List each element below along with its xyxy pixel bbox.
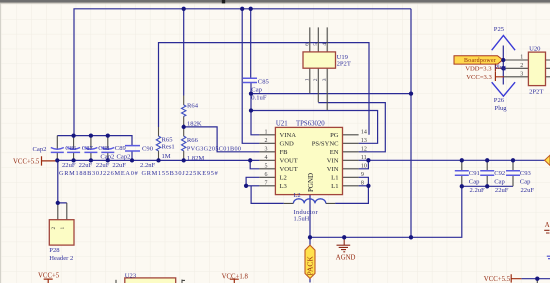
inductor labels — [294, 192, 319, 222]
text R65 — [162, 136, 175, 160]
capacitor C86 — [51, 148, 64, 153]
svg-text:Boardpower: Boardpower — [464, 58, 496, 64]
svg-text:6: 6 — [265, 172, 268, 178]
U21 pin stubs right — [343, 135, 359, 186]
svg-text:U21: U21 — [276, 120, 288, 127]
svg-text:L1: L1 — [331, 175, 338, 182]
svg-text:7: 7 — [265, 181, 268, 187]
svg-text:22uF: 22uF — [521, 187, 535, 194]
svg-text:VOUT: VOUT — [280, 166, 298, 173]
svg-text:Cap: Cap — [469, 178, 480, 185]
svg-text:U23: U23 — [125, 272, 137, 279]
P25 P26 labels — [494, 26, 507, 112]
svg-text:C90: C90 — [142, 145, 154, 152]
svg-text:1: 1 — [265, 130, 268, 136]
svg-text:C93: C93 — [520, 170, 532, 177]
U21 pin stubs left — [259, 135, 275, 186]
power texts — [13, 159, 511, 283]
svg-text:L2: L2 — [280, 175, 287, 182]
svg-text:PVG3G205C01B00: PVG3G205C01B00 — [187, 146, 241, 153]
svg-text:Res1: Res1 — [162, 143, 175, 150]
svg-text:L3: L3 — [280, 183, 288, 190]
U20 pin numbers — [520, 55, 523, 78]
wire U19 pin2 to EN — [318, 103, 385, 152]
wire caps bottom rail — [462, 185, 513, 187]
svg-text:Cap: Cap — [251, 86, 262, 93]
svg-text:P28: P28 — [49, 247, 60, 254]
text R66 — [187, 137, 241, 162]
IC U20 body — [528, 52, 545, 86]
svg-text:1.5uH: 1.5uH — [294, 216, 310, 223]
wire PG net y42.6 — [159, 43, 370, 135]
svg-text:Cap2: Cap2 — [100, 153, 114, 160]
svg-text:C88: C88 — [98, 145, 110, 152]
power port PACK pennant — [305, 245, 315, 278]
capacitor C85 — [243, 78, 257, 82]
U19 pin numbers rotated — [305, 43, 328, 82]
svg-text:C85: C85 — [258, 78, 270, 85]
svg-text:Cap2: Cap2 — [117, 153, 131, 160]
text R64 — [187, 102, 202, 127]
wire VINA net y93.6 — [251, 93, 411, 95]
svg-text:9: 9 — [361, 172, 364, 178]
wire VIN pin11 to C caps and arrow — [359, 159, 546, 161]
clipped AGND right edge — [544, 230, 549, 233]
capacitor C93 — [506, 171, 520, 176]
wire FB net to pin3 — [184, 127, 260, 152]
svg-text:1.82M: 1.82M — [187, 155, 205, 162]
left window edge — [0, 4, 1, 283]
svg-text:14: 14 — [361, 130, 367, 136]
svg-text:1M: 1M — [162, 153, 171, 160]
U21 pin numbers — [265, 130, 367, 187]
svg-text:2: 2 — [313, 78, 319, 81]
svg-text:10: 10 — [361, 164, 367, 170]
svg-text:VCC+5.5: VCC+5.5 — [13, 159, 40, 166]
wire C85 top lead — [250, 9, 252, 79]
svg-text:3: 3 — [265, 147, 268, 153]
svg-text:VCC=3.3: VCC=3.3 — [466, 74, 492, 81]
svg-text:PACK: PACK — [306, 256, 315, 276]
power port VCC+5.5 left — [42, 156, 58, 165]
U19 labels — [337, 54, 351, 68]
wire pin4 to pin5 — [250, 160, 259, 168]
svg-text:U20: U20 — [529, 45, 541, 52]
svg-text:182K: 182K — [187, 121, 202, 128]
IC U23 body — [125, 278, 176, 283]
svg-text:2.2nF: 2.2nF — [140, 162, 156, 169]
svg-text:22uF: 22uF — [495, 187, 509, 194]
svg-text:AGND: AGND — [336, 254, 356, 261]
svg-text:2.2uF: 2.2uF — [470, 187, 486, 194]
bottom right stub — [536, 279, 538, 283]
svg-text:VIN: VIN — [327, 158, 339, 165]
svg-text:GRM188B30J226MEA0#: GRM188B30J226MEA0# — [59, 170, 139, 177]
svg-text:2P2T: 2P2T — [529, 88, 543, 95]
port P26 arrow — [492, 82, 515, 96]
power port VCC+5.5 bottom right — [511, 274, 521, 282]
text labels cap bank — [33, 145, 219, 177]
P28 labels — [49, 247, 73, 262]
svg-text:A: A — [545, 222, 550, 229]
capacitor C90 — [125, 146, 140, 151]
U20 right side pin stubs — [546, 60, 550, 77]
U23 left stub — [115, 280, 117, 283]
power port VCC+5 bar — [44, 279, 53, 283]
svg-text:C91: C91 — [469, 170, 480, 177]
svg-text:1: 1 — [305, 78, 311, 81]
top window edge bar — [0, 0, 550, 3]
svg-text:2: 2 — [520, 63, 523, 69]
svg-text:PS/SYNC: PS/SYNC — [312, 141, 339, 148]
wire to P28 — [58, 160, 67, 203]
P28 pin numbers rotated — [51, 227, 66, 230]
svg-text:C89: C89 — [115, 145, 127, 152]
text C85 — [251, 78, 269, 101]
svg-text:C92: C92 — [494, 170, 505, 177]
wire pin7 stub link — [246, 185, 259, 187]
wire R64 bottom node — [183, 124, 185, 128]
wire pin8 stub link — [359, 185, 369, 187]
text U21 title — [276, 120, 325, 127]
op IC U21 body — [275, 127, 342, 194]
svg-text:L1: L1 — [331, 183, 338, 190]
resistor R65 — [156, 127, 160, 160]
power bar VDD=3.3 — [495, 64, 503, 72]
svg-text:VCC+1.8: VCC+1.8 — [222, 273, 249, 280]
svg-text:22uF: 22uF — [112, 162, 126, 169]
IC U19 body — [303, 52, 336, 68]
svg-text:R66: R66 — [187, 137, 199, 144]
svg-text:C87: C87 — [82, 145, 94, 152]
VDD VCC labels — [465, 66, 492, 81]
svg-text:VCC+5: VCC+5 — [38, 272, 60, 279]
svg-text:VINA: VINA — [280, 132, 297, 139]
wire PACK stub — [309, 237, 311, 245]
wire cap bank top rail — [57, 136, 132, 146]
svg-text:VIN: VIN — [327, 166, 339, 173]
svg-text:4: 4 — [265, 155, 268, 161]
power bar VCC=3.3 — [495, 72, 504, 81]
wire vertical x411 to bottom rail — [410, 9, 412, 238]
svg-text:22uF: 22uF — [62, 162, 76, 169]
wire R64 top lead — [183, 9, 185, 96]
wire U19 pin3 node to PS/SYNC — [251, 111, 378, 144]
resistor R64 — [182, 96, 186, 127]
wire U20 node vertical — [502, 46, 504, 85]
svg-text:22uF: 22uF — [79, 162, 93, 169]
connector P28 body — [49, 220, 74, 245]
cap bank stubs — [57, 136, 108, 161]
svg-text:TPS63020: TPS63020 — [296, 120, 325, 127]
C91 C92 C93 labels — [469, 170, 535, 194]
port P25 arrow — [492, 36, 515, 51]
svg-text:8: 8 — [361, 181, 364, 187]
svg-text:22uF: 22uF — [96, 162, 110, 169]
svg-text:R64: R64 — [187, 102, 199, 109]
svg-text:VOUT: VOUT — [280, 158, 298, 165]
wire down to inductor left — [251, 186, 284, 204]
wire pin11 to pin10 — [359, 160, 369, 169]
svg-text:PGND: PGND — [307, 173, 315, 192]
U21 pin names — [280, 132, 340, 192]
svg-text:1: 1 — [520, 55, 523, 61]
svg-text:P25: P25 — [494, 26, 505, 33]
svg-text:2P2T: 2P2T — [337, 61, 351, 68]
svg-text:4: 4 — [322, 43, 328, 46]
U19 pin stubs top — [310, 27, 327, 52]
svg-text:P26: P26 — [494, 97, 505, 104]
C91 C92 C93 stubs — [462, 160, 513, 186]
clipped blue symbol right edge — [547, 256, 550, 259]
svg-text:5: 5 — [265, 164, 268, 170]
svg-text:Cap2: Cap2 — [33, 146, 47, 153]
svg-text:3: 3 — [520, 71, 523, 77]
capacitor C89 — [101, 148, 114, 153]
U23 right stub — [182, 280, 185, 283]
wire C85 bottom lead to VINA pin1 — [251, 83, 259, 135]
svg-text:GND: GND — [280, 141, 295, 148]
wire PGND down — [309, 195, 311, 238]
wire bottom right VCC — [521, 278, 550, 280]
svg-text:EN: EN — [330, 149, 339, 156]
svg-text:Plug: Plug — [495, 64, 506, 71]
wire GND pin2 net — [242, 9, 259, 144]
svg-text:Cap: Cap — [494, 178, 505, 185]
port arrow right edge — [545, 155, 550, 165]
svg-text:0.1uF: 0.1uF — [251, 95, 267, 102]
svg-text:2: 2 — [51, 227, 57, 230]
svg-text:VCC+5.5: VCC+5.5 — [484, 276, 511, 283]
svg-text:Cap: Cap — [520, 178, 531, 185]
capacitor C87 — [67, 148, 80, 153]
svg-text:3: 3 — [322, 78, 328, 81]
svg-text:12: 12 — [361, 147, 367, 153]
ground AGND — [337, 237, 351, 252]
inductor L2 — [293, 199, 325, 204]
wire PACK tail — [309, 279, 311, 283]
wire VOUT rail y160.4 — [57, 159, 259, 161]
power port Boardpower banner — [454, 56, 503, 64]
inductor leads — [284, 202, 335, 204]
svg-text:11: 11 — [361, 155, 367, 161]
resistor R66 — [182, 127, 186, 160]
wire C90 bottom lead — [131, 151, 133, 160]
wire pin6 to pin7 — [246, 177, 259, 186]
U19 pin stubs bottom — [310, 68, 327, 110]
capacitor C91 — [455, 171, 469, 176]
svg-text:L2: L2 — [294, 192, 301, 199]
svg-text:C86: C86 — [65, 145, 77, 152]
svg-text:1: 1 — [60, 227, 66, 230]
power port VCC+1.8 bar — [230, 279, 239, 283]
svg-text:FB: FB — [280, 149, 289, 156]
wire top VIN rail — [74, 9, 411, 136]
svg-text:GRM155B30J225KE95#: GRM155B30J225KE95# — [142, 170, 219, 177]
svg-text:VDD=3.3: VDD=3.3 — [465, 66, 492, 73]
capacitor C92 — [480, 171, 494, 176]
svg-text:Plug: Plug — [495, 105, 508, 112]
svg-text:PG: PG — [330, 132, 339, 139]
wire pin9 pin8 down to inductor right — [335, 177, 368, 203]
svg-text:2: 2 — [265, 138, 268, 144]
svg-text:6: 6 — [305, 43, 311, 46]
capacitor C88 — [84, 148, 97, 153]
svg-text:5: 5 — [313, 43, 319, 46]
wire bottom AGND rail — [310, 186, 462, 237]
svg-text:13: 13 — [361, 138, 367, 144]
P28 pin stubs — [58, 203, 67, 220]
svg-text:Header 2: Header 2 — [49, 255, 73, 262]
U20 pin stubs — [504, 60, 528, 77]
U20 labels — [529, 45, 543, 95]
